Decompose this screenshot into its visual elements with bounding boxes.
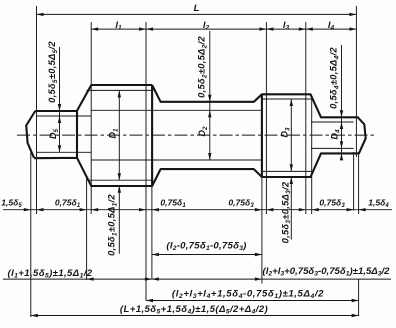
dimension l4 (306, 27, 313, 30)
svg-text:0,5δ2​±0,5Δ2​/2: 0,5δ2​±0,5Δ2​/2 (197, 36, 209, 98)
dimension D3 diameter + 0.5delta3 allowance below (290, 99, 292, 171)
dimension (l1+1.5d5) and (l2+l3+0.75d3-0.75d1) row (3, 278, 391, 280)
extension line D3 chamfer ref (311, 97, 313, 214)
dimension (l2+l3+l4+1.5d4-0.75d1) (146, 300, 359, 302)
extension line l3/l4 boundary (305, 22, 307, 214)
extension line forged left end (30, 152, 32, 317)
svg-text:0,5δ5​±0,5Δ5​/2: 0,5δ5​±0,5Δ5​/2 (47, 41, 59, 103)
extension line l1/l2 boundary (145, 22, 147, 301)
extension line l2/l3 boundary (265, 22, 267, 214)
extension line machined right end (353, 152, 355, 211)
machined contour D5 top (37, 115, 92, 117)
machined contour D5 bottom (37, 151, 92, 153)
extension line cone/D1 intersection (86, 176, 88, 280)
dimension (l2-0.75d1-0.75d3) (152, 254, 262, 256)
machined contour D3 top (262, 98, 312, 100)
machined contour D1 top (86, 89, 152, 91)
machined contour D4 bottom (311, 147, 354, 149)
machined contour D1 bottom (87, 179, 152, 181)
machined contour D2 bottom (91, 159, 262, 161)
machined contour D2 top (91, 109, 262, 111)
allowance gaps dimension row (3, 209, 392, 211)
machined contour D4 top (311, 121, 354, 123)
dimension l1 (91, 28, 356, 30)
shaft centerline axis (17, 134, 374, 136)
extension line D1 right face extended (151, 186, 153, 280)
dimension l2 (146, 27, 153, 30)
dimension 0.5delta4 allowance + D4 diameter (341, 45, 343, 158)
machined contour D3 bottom (262, 170, 312, 172)
extension line shoulder1 left (l1 start) (90, 22, 92, 214)
svg-text:0,5δ4​±0,5Δ4​/2: 0,5δ4​±0,5Δ4​/2 (329, 47, 341, 109)
extension line right end (L) (355, 6, 357, 157)
dimension 0.5delta5 allowance + D5 diameter (59, 47, 61, 152)
extension line machined left end (36, 6, 38, 214)
svg-text:0,5δ1​±0,5Δ1​/2: 0,5δ1​±0,5Δ1​/2 (107, 194, 119, 256)
svg-text:0,5δ3​±0,5Δ3​/2: 0,5δ3​±0,5Δ3​/2 (280, 181, 292, 243)
dimension l3 (266, 27, 273, 30)
extension line forged right end (358, 152, 360, 214)
dimension 0.5delta2 allowance + D2 diameter (209, 31, 211, 160)
svg-text:L: L (194, 3, 200, 14)
dimension D1 diameter + 0.5delta1 allowance below (118, 90, 120, 180)
svg-text:(L+1,5δ5​+1,5δ4​)±1,5(Δ5​/2+Δ4: (L+1,5δ5​+1,5δ4​)±1,5(Δ5​/2+Δ4​/2) (120, 304, 268, 316)
forged shaft profile outline (26, 85, 366, 186)
dimension (L+1.5d5+1.5d4) overall forged length (31, 315, 359, 317)
dimension L (37, 13, 357, 15)
extension line D3 left face extended (261, 177, 263, 284)
